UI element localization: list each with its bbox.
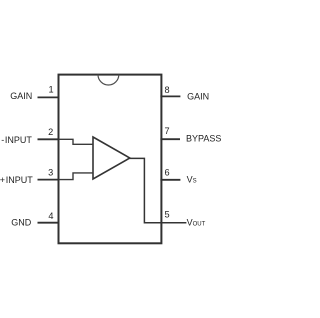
pin-1 end notch: [98, 75, 119, 85]
svg-text:6: 6: [165, 167, 170, 177]
pin 6 lead: [160, 179, 180, 181]
svg-text:GND: GND: [11, 218, 32, 228]
op-amp U1 triangle: [93, 137, 130, 179]
IC body U1 (DIP-8 outline): [59, 75, 162, 244]
svg-text:1: 1: [48, 84, 53, 94]
svg-text:BYPASS: BYPASS: [186, 133, 221, 143]
svg-text:2: 2: [48, 127, 53, 137]
wire pin3 to non-inverting input: [59, 173, 93, 180]
pin 4 lead: [38, 222, 60, 224]
svg-text:GAIN: GAIN: [187, 91, 209, 101]
svg-text:8: 8: [165, 85, 170, 95]
pin 7 lead: [160, 138, 180, 140]
svg-text:5: 5: [165, 210, 170, 220]
wire pin2 to inverting input: [59, 139, 93, 144]
svg-text:7: 7: [165, 126, 170, 136]
pin 1 lead: [38, 96, 60, 98]
svg-text:+INPUT: +INPUT: [0, 175, 33, 185]
pin 2 lead: [38, 138, 59, 140]
svg-text:GAIN: GAIN: [10, 91, 32, 101]
wire op-amp output to pin 5: [129, 158, 186, 222]
pin 8 lead: [160, 95, 180, 97]
svg-text:4: 4: [48, 211, 53, 221]
svg-text:3: 3: [48, 167, 53, 177]
pin 3 lead: [38, 179, 59, 181]
svg-text:-INPUT: -INPUT: [1, 135, 32, 145]
